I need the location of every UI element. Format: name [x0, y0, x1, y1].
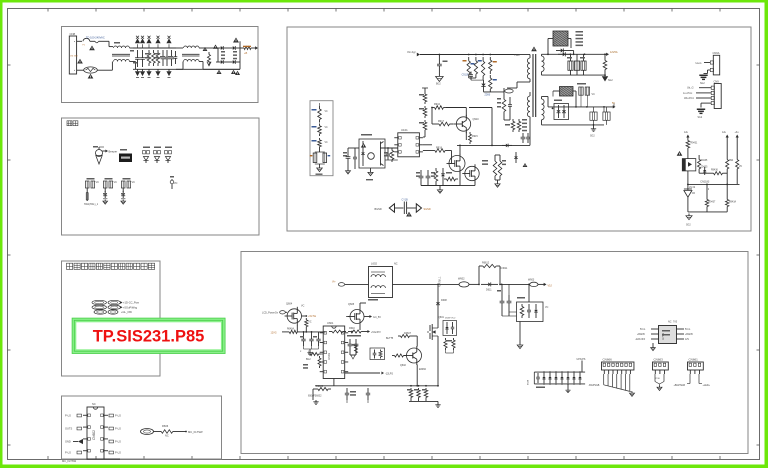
svg-text:Ub_G: Ub_G	[687, 87, 694, 90]
svg-text:CN666: CN666	[603, 358, 613, 362]
svg-text:Q604: Q604	[286, 303, 293, 306]
svg-text:R918: R918	[436, 147, 443, 150]
svg-text:Grt_5V: Grt_5V	[373, 316, 381, 319]
svg-text:U702: U702	[661, 332, 665, 340]
svg-text:VC: VC	[96, 181, 100, 184]
svg-text:OUTS: OUTS	[65, 427, 72, 431]
svg-text:+3u: +3u	[735, 131, 740, 134]
svg-text:CN8: CN8	[70, 32, 76, 36]
svg-text:R94: R94	[729, 160, 734, 162]
svg-text:Vin-bgr: Vin-bgr	[407, 50, 416, 54]
svg-text:A5u.P/cc: A5u.P/cc	[684, 97, 695, 100]
svg-text:P-LG: P-LG	[115, 451, 121, 455]
svg-text:+5V-5G: +5V-5G	[308, 316, 316, 318]
svg-text:VC: VC	[174, 182, 178, 185]
svg-text:R943A: R943A	[729, 201, 736, 204]
svg-text:VC: VC	[308, 322, 312, 324]
svg-text:VC: VC	[325, 127, 329, 129]
svg-text:D608: D608	[441, 299, 447, 302]
svg-text:Q605: Q605	[348, 303, 355, 306]
svg-text:VI+: VI+	[332, 281, 336, 284]
svg-text:P-LG: P-LG	[65, 414, 71, 418]
svg-text:MC_FLTSW: MC_FLTSW	[62, 459, 77, 463]
svg-text:BG2: BG2	[436, 84, 441, 86]
svg-text:12u: 12u	[684, 131, 689, 134]
svg-text:5V: 5V	[612, 102, 615, 105]
svg-text:Q601: Q601	[438, 316, 445, 319]
svg-text:R4607: R4607	[404, 332, 412, 335]
svg-text:-12LPS: -12LPS	[385, 373, 393, 376]
svg-text:P-LG: P-LG	[115, 440, 121, 444]
svg-text:ZD90: ZD90	[485, 95, 491, 97]
svg-text:LCD_PowerOn: LCD_PowerOn	[262, 312, 279, 315]
svg-text:NC: NC	[92, 402, 96, 406]
svg-text:GND: GND	[65, 440, 71, 444]
svg-text:W603: W603	[528, 279, 535, 282]
svg-text:R917: R917	[438, 120, 445, 123]
svg-text:TD 100-240VAC: TD 100-240VAC	[86, 36, 105, 40]
svg-text:TP.SIS231.P85: TP.SIS231.P85	[93, 328, 205, 346]
svg-text:E6060: E6060	[419, 368, 427, 371]
svg-text:BuT*B: BuT*B	[386, 337, 394, 340]
svg-text:U101: U101	[401, 128, 408, 132]
svg-text:D645*VC2: D645*VC2	[445, 318, 456, 320]
svg-text:UP/UPS: UP/UPS	[577, 358, 586, 361]
svg-text:CN1183: CN1183	[700, 181, 710, 184]
svg-text:BGND: BGND	[375, 208, 382, 211]
svg-text:CN9: CN9	[714, 79, 720, 83]
svg-text:R9436: R9436	[711, 170, 718, 172]
svg-text:P-LG: P-LG	[115, 414, 121, 418]
svg-text:NC: NC	[165, 434, 169, 438]
svg-text:+BGFB: +BGFB	[637, 334, 645, 336]
svg-text:12V6A: 12V6A	[610, 51, 618, 54]
svg-text:VC: VC	[325, 111, 329, 113]
svg-text:C9119: C9119	[462, 75, 469, 77]
svg-text:W602: W602	[458, 278, 465, 281]
svg-text:12u: 12u	[722, 131, 727, 134]
svg-text:P-LG: P-LG	[65, 451, 71, 455]
svg-text:CN9A: CN9A	[713, 51, 720, 55]
svg-text:D611: D611	[486, 289, 492, 292]
svg-text:CN661: CN661	[689, 358, 699, 362]
svg-text:R606: R606	[162, 424, 169, 428]
svg-text:Ua-G: Ua-G	[696, 62, 702, 65]
svg-text:12V: 12V	[685, 339, 690, 341]
svg-text:+GL_OW: +GL_OW	[121, 310, 132, 314]
svg-text:CN602: CN602	[92, 430, 96, 440]
svg-text:+5Ju/P/V: +5Ju/P/V	[371, 331, 381, 334]
svg-text:+LED+: +LED+	[703, 384, 711, 387]
svg-text:R640: R640	[349, 327, 355, 330]
svg-text:Q910: Q910	[473, 118, 480, 121]
svg-text:-BGPSGB: -BGPSGB	[589, 384, 600, 387]
svg-text:+1D-CC_Pow: +1D-CC_Pow	[123, 301, 139, 305]
svg-text:VC: VC	[325, 142, 329, 144]
svg-text:NC: NC	[668, 321, 672, 324]
svg-text:SG2: SG2	[608, 80, 613, 82]
svg-text:-2LB-OFF: -2LB-OFF	[635, 339, 646, 341]
svg-text:VC: VC	[545, 306, 549, 309]
svg-text:MC_FLTSW: MC_FLTSW	[188, 430, 203, 434]
svg-text:A.u.P/cc: A.u.P/cc	[683, 92, 693, 95]
svg-text:BG2: BG2	[306, 359, 311, 361]
svg-text:VC: VC	[739, 166, 743, 168]
svg-text:VC: VC	[132, 181, 136, 184]
svg-text:650uF56002: 650uF56002	[308, 395, 322, 398]
svg-text:CN663: CN663	[654, 358, 664, 362]
svg-text:7V5: 7V5	[673, 322, 678, 324]
svg-text:P-LG: P-LG	[115, 427, 121, 431]
svg-text:R910: R910	[434, 103, 441, 106]
svg-text:+BGPSGB: +BGPSGB	[674, 384, 686, 387]
svg-text:SG2: SG2	[698, 117, 703, 119]
svg-text:SG2: SG2	[590, 136, 595, 138]
svg-text:5V-G: 5V-G	[685, 329, 690, 331]
svg-text:L602: L602	[371, 262, 377, 266]
svg-text:E548: E548	[528, 379, 530, 385]
svg-text:U601: U601	[327, 321, 334, 325]
svg-text:SG2: SG2	[686, 225, 691, 227]
svg-text:R640A: R640A	[287, 328, 294, 331]
svg-text:R9435: R9435	[701, 160, 708, 162]
svg-text:CY1B: CY1B	[402, 199, 409, 202]
svg-text:V5J: V5J	[548, 285, 553, 288]
svg-text:+BGFB: +BGFB	[685, 334, 693, 336]
svg-text:VC: VC	[301, 305, 305, 308]
svg-text:R9431: R9431	[691, 143, 698, 145]
svg-text:R9437: R9437	[709, 202, 716, 204]
svg-text:NC: NC	[394, 263, 398, 266]
svg-text:R6612: R6612	[482, 262, 490, 265]
svg-text:VC: VC	[592, 93, 596, 96]
svg-text:R915: R915	[472, 135, 478, 138]
svg-text:Q602: Q602	[400, 364, 407, 367]
svg-text:+B: +B	[244, 51, 248, 55]
svg-text:SW1(SW-)_1: SW1(SW-)_1	[84, 203, 99, 206]
svg-text:SG2: SG2	[700, 83, 705, 85]
svg-text:U601: U601	[327, 352, 331, 360]
svg-text:VC: VC	[114, 181, 118, 184]
svg-text:C3611: C3611	[501, 267, 509, 270]
svg-text:Beeper: Beeper	[109, 150, 118, 154]
svg-text:+5GuP/Wsg: +5GuP/Wsg	[123, 305, 138, 309]
svg-text:1M 1W2: 1M 1W2	[70, 56, 78, 58]
svg-text:NJATM_1: NJATM_1	[439, 276, 442, 287]
svg-text:12VG: 12VG	[271, 332, 277, 335]
svg-text:5V-G: 5V-G	[640, 329, 645, 331]
svg-text:SGND: SGND	[424, 208, 431, 211]
